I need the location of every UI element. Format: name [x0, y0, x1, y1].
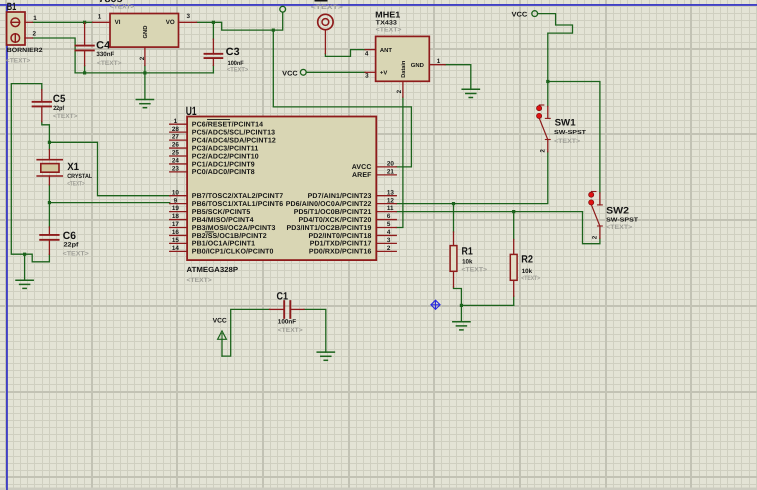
- label SW1: [555, 118, 577, 129]
- label MHE1: [375, 9, 400, 19]
- svg-text:U1: U1: [186, 104, 197, 118]
- pin number 1 B1: [33, 15, 37, 22]
- svg-text:<TEXT>: <TEXT>: [97, 60, 122, 67]
- svg-text:SW1: SW1: [555, 118, 577, 129]
- svg-text:PD1/TXD/PCINT17: PD1/TXD/PCINT17: [310, 240, 372, 248]
- svg-text:330nF: 330nF: [96, 51, 114, 58]
- value C3 100nF: [228, 60, 244, 67]
- junction node PD6/R1: [452, 202, 455, 205]
- power terminal VCC MHE1: [282, 69, 306, 77]
- pin number 3 V1: [187, 13, 191, 20]
- pin number 2 SW2 rotated: [592, 235, 599, 239]
- microcontroller U1 pin stubs: [170, 124, 397, 251]
- junction node VO/C3: [212, 21, 215, 24]
- svg-text:4: 4: [365, 50, 369, 57]
- pin number 2 SW1 rotated: [540, 149, 547, 153]
- svg-text:PB2/SS/OC1B/PCINT2: PB2/SS/OC1B/PCINT2: [192, 232, 267, 240]
- svg-text:<TEXT>: <TEXT>: [554, 138, 580, 145]
- module MHE1 pins: [365, 50, 445, 98]
- svg-text:25: 25: [172, 150, 180, 157]
- svg-text:C4: C4: [96, 40, 110, 52]
- svg-text:<TEXT>: <TEXT>: [278, 327, 303, 334]
- svg-text:5: 5: [387, 221, 391, 228]
- svg-text:ATMEGA328P: ATMEGA328P: [187, 265, 239, 274]
- text placeholder MHE1: [376, 27, 402, 34]
- wire ground rail under R1 R2: [461, 304, 513, 306]
- text placeholder U1: [187, 277, 213, 284]
- label C4: [96, 40, 110, 52]
- wire crystal top lead join: [48, 142, 50, 149]
- svg-text:3: 3: [387, 237, 391, 244]
- switch SW2: [589, 192, 603, 239]
- wire R2 top drop: [513, 212, 515, 240]
- label clipped above antenna: [315, 0, 328, 2]
- microcontroller U1 body: [187, 117, 376, 261]
- wire VO net to AVCC pin 20: [273, 30, 411, 167]
- svg-text:2: 2: [592, 235, 599, 239]
- capacitor C3: [205, 39, 223, 65]
- text placeholder C1: [278, 327, 303, 334]
- svg-text:<TEXT>: <TEXT>: [376, 27, 402, 34]
- text placeholder R2: [521, 275, 540, 282]
- value CRYSTAL: [67, 173, 92, 180]
- text placeholder C5: [53, 113, 78, 120]
- junction node C4/rail: [83, 71, 86, 74]
- svg-text:1: 1: [33, 15, 37, 22]
- terminal block B1: [7, 12, 33, 45]
- wire MHE1 GND pin to ground: [445, 65, 471, 90]
- svg-text:BORNIER2: BORNIER2: [7, 47, 43, 54]
- U1 left pin names and numbers: [172, 118, 283, 256]
- junction node VO/AVCC branch: [272, 29, 275, 32]
- module MHE1 body: [376, 36, 430, 81]
- pin name VO: [166, 19, 175, 26]
- text placeholder antenna: [311, 4, 344, 11]
- svg-text:+V: +V: [380, 70, 387, 77]
- regulator V1 pins: [93, 22, 197, 65]
- value BORNIER2: [7, 47, 43, 54]
- svg-text:<TEXT>: <TEXT>: [311, 4, 344, 11]
- svg-text:SW-SPST: SW-SPST: [554, 129, 587, 136]
- junction node rail/ground: [460, 304, 463, 307]
- svg-text:4: 4: [387, 229, 391, 236]
- svg-text:<TEXT>: <TEXT>: [67, 181, 85, 188]
- pin number 3 MHE1: [365, 73, 369, 80]
- svg-text:<TEXT>: <TEXT>: [606, 224, 632, 231]
- wire U1 PD5 pin11 to R2 and SW2 bottom: [396, 211, 582, 213]
- wire C1 right to ground: [304, 309, 326, 352]
- svg-text:ANT: ANT: [380, 47, 393, 54]
- svg-text:17: 17: [172, 221, 180, 228]
- value C4 330nF: [96, 51, 114, 58]
- capacitor C1: [270, 301, 305, 318]
- label C6: [63, 230, 76, 242]
- svg-text:10k: 10k: [462, 259, 473, 266]
- wire XTAL1 node down to C6: [48, 203, 50, 227]
- svg-text:11: 11: [387, 205, 394, 212]
- junction node XTAL2: [48, 141, 51, 144]
- svg-text:13: 13: [387, 189, 395, 196]
- power terminal VCC top (regulator output): [280, 6, 286, 12]
- value C6 22pf: [64, 242, 80, 249]
- capacitor C5: [33, 90, 51, 122]
- ground crystal caps: [16, 280, 33, 288]
- value C5 22pf: [53, 105, 65, 112]
- svg-text:SW2: SW2: [606, 206, 629, 217]
- label U1: [186, 104, 197, 118]
- svg-text:16: 16: [172, 229, 180, 236]
- wire B1 pin2 down to ground rail: [33, 38, 76, 73]
- text placeholder V1: [110, 3, 135, 10]
- svg-text:SW-SPST: SW-SPST: [606, 216, 639, 223]
- wire R1 top drop: [453, 204, 455, 232]
- sheet border blue horizontal: [0, 4, 757, 6]
- svg-text:VO: VO: [166, 19, 175, 26]
- wire C3 top tap: [212, 22, 214, 39]
- svg-text:10k: 10k: [522, 268, 533, 275]
- svg-text:19: 19: [172, 205, 180, 212]
- svg-text:14: 14: [172, 245, 180, 252]
- junction node V1GND/rail: [143, 71, 146, 74]
- power terminal VCC right: [512, 11, 538, 19]
- label C3: [226, 46, 240, 58]
- pin number 1 V1: [98, 14, 102, 21]
- wire ground rail under regulator: [75, 72, 213, 74]
- value R1 10k: [462, 259, 473, 266]
- label V1 clipped 7805: [99, 0, 123, 4]
- wire C3 bottom to rail: [212, 65, 214, 73]
- svg-text:AREF: AREF: [352, 172, 372, 179]
- svg-text:R1: R1: [462, 245, 473, 257]
- resistor R2: [510, 240, 517, 297]
- capacitor C6: [40, 227, 58, 254]
- svg-text:2: 2: [139, 56, 146, 60]
- value SW-SPST SW1: [554, 129, 587, 136]
- capacitor C4: [75, 23, 93, 66]
- svg-text:27: 27: [172, 134, 180, 141]
- ground V1: [136, 100, 153, 108]
- text placeholder C3: [227, 66, 249, 73]
- svg-text:24: 24: [172, 158, 180, 165]
- svg-text:PD2/INT0/PCINT18: PD2/INT0/PCINT18: [308, 232, 371, 240]
- svg-text:22pf: 22pf: [64, 242, 80, 249]
- value SW-SPST SW2: [606, 216, 639, 223]
- svg-text:Datain: Datain: [400, 60, 407, 78]
- svg-text:6: 6: [387, 213, 391, 220]
- svg-text:VCC: VCC: [282, 70, 298, 77]
- pin name GND MHE1: [411, 62, 424, 69]
- text placeholder SW1: [554, 138, 580, 145]
- svg-text:100nF: 100nF: [278, 318, 297, 325]
- svg-text:2: 2: [33, 31, 37, 38]
- value ATMEGA328P: [187, 265, 239, 274]
- svg-text:PD0/RXD/PCINT16: PD0/RXD/PCINT16: [309, 248, 372, 256]
- svg-text:CRYSTAL: CRYSTAL: [67, 173, 92, 180]
- label C5: [53, 93, 66, 105]
- label B1: [7, 1, 17, 13]
- svg-text:3: 3: [365, 73, 369, 80]
- junction node XTAL1: [48, 201, 51, 204]
- svg-text:21: 21: [387, 168, 395, 175]
- pin name ANT: [380, 47, 393, 54]
- svg-text:PB4/MISO/PCINT4: PB4/MISO/PCINT4: [192, 216, 254, 224]
- svg-text:GND: GND: [411, 62, 424, 69]
- text placeholder X1: [67, 181, 85, 188]
- U1 right pin names and numbers: [286, 161, 395, 256]
- svg-text:B1: B1: [7, 1, 17, 13]
- svg-text:PC6/RESET/PCINT14: PC6/RESET/PCINT14: [192, 121, 263, 129]
- svg-text:PD5/T1/OC0B/PCINT21: PD5/T1/OC0B/PCINT21: [294, 208, 372, 216]
- svg-text:1: 1: [98, 14, 102, 21]
- svg-text:PD3/INT1/OC2B/PCINT19: PD3/INT1/OC2B/PCINT19: [287, 224, 372, 232]
- svg-text:PD7/AIN1/PCINT23: PD7/AIN1/PCINT23: [308, 192, 372, 200]
- pin number 2 B1: [33, 31, 37, 38]
- svg-text:VI: VI: [115, 19, 121, 26]
- wire crystal bottom to XTAL1 node: [48, 185, 50, 203]
- wire U1 PD6 pin12 to R1 and SW1 bottom: [396, 152, 548, 204]
- wire B1 pin1 to V1 VI (net VIN): [33, 21, 93, 23]
- junction node VIN/C4: [83, 21, 86, 24]
- svg-text:PB5/SCK/PCINT5: PB5/SCK/PCINT5: [192, 208, 251, 216]
- pin name +V: [380, 70, 387, 77]
- svg-text:<TEXT>: <TEXT>: [227, 66, 249, 73]
- svg-text:TX433: TX433: [376, 20, 398, 27]
- svg-text:3: 3: [187, 13, 191, 20]
- wire VCC terminal to MHE1 +V: [306, 71, 365, 73]
- svg-text:PC0/ADC0/PCINT8: PC0/ADC0/PCINT8: [192, 168, 255, 176]
- text placeholder B1: [6, 57, 31, 64]
- svg-text:20: 20: [387, 161, 395, 168]
- svg-text:<TEXT>: <TEXT>: [53, 113, 78, 120]
- svg-text:R2: R2: [521, 254, 533, 266]
- origin marker blue diamond: [431, 300, 440, 309]
- wire MHE1 Datain down to U1 PD3 pin 5: [396, 97, 403, 227]
- value R2 10k: [522, 268, 533, 275]
- svg-text:2: 2: [387, 245, 391, 252]
- label R2: [521, 254, 533, 266]
- junction node PD5/R2: [512, 210, 515, 213]
- svg-text:1: 1: [174, 118, 178, 125]
- wire C5 bottom jog to crystal top node: [42, 122, 50, 143]
- svg-text:C6: C6: [63, 230, 76, 242]
- wire ground drop on C6 return: [24, 254, 26, 280]
- svg-text:PB6/TOSC1/XTAL1/PCINT6: PB6/TOSC1/XTAL1/PCINT6: [192, 200, 283, 208]
- svg-text:22pf: 22pf: [53, 105, 65, 112]
- svg-text:AVCC: AVCC: [352, 164, 372, 171]
- label C1: [277, 291, 289, 303]
- junction node VCC/SW branch: [546, 80, 549, 83]
- svg-text:<TEXT>: <TEXT>: [521, 275, 540, 282]
- pin number 4 MHE1: [365, 50, 369, 57]
- svg-text:<TEXT>: <TEXT>: [63, 250, 89, 257]
- svg-text:PD4/T0/XCK/PCINT20: PD4/T0/XCK/PCINT20: [299, 216, 372, 224]
- svg-text:2: 2: [540, 149, 547, 153]
- svg-text:23: 23: [172, 166, 180, 173]
- svg-text:PC2/ADC2/PCINT10: PC2/ADC2/PCINT10: [192, 152, 259, 160]
- svg-text:PC1/ADC1/PCINT9: PC1/ADC1/PCINT9: [192, 160, 255, 168]
- wire R1 bottom to ground rail: [454, 287, 462, 305]
- wire V1 VO to VCC terminal (jog): [197, 12, 283, 30]
- svg-text:PD6/AIN0/OC0A/PCINT22: PD6/AIN0/OC0A/PCINT22: [286, 200, 372, 208]
- svg-text:PC5/ADC5/SCL/PCINT13: PC5/ADC5/SCL/PCINT13: [192, 128, 275, 136]
- svg-text:C5: C5: [53, 93, 66, 105]
- wire U1 XTAL2 pin10 to crystal top: [49, 142, 169, 195]
- pin number 2 MHE1 rotated: [396, 89, 403, 93]
- svg-text:MHE1: MHE1: [375, 9, 400, 19]
- crystal X1: [37, 150, 62, 185]
- svg-text:1: 1: [437, 58, 441, 65]
- pin number 2 V1 rotated: [139, 56, 146, 60]
- text placeholder R1: [462, 267, 488, 274]
- svg-text:PC3/ADC3/PCINT11: PC3/ADC3/PCINT11: [192, 144, 259, 152]
- ground MHE1: [462, 89, 479, 97]
- pin name GND rotated: [142, 26, 149, 39]
- svg-text:GND: GND: [142, 26, 149, 39]
- svg-text:PB7/TOSC2/XTAL2/PCINT7: PB7/TOSC2/XTAL2/PCINT7: [192, 192, 283, 200]
- svg-text:PB1/OC1A/PCINT1: PB1/OC1A/PCINT1: [192, 240, 255, 248]
- svg-text:C1: C1: [277, 291, 289, 303]
- svg-text:15: 15: [172, 237, 180, 244]
- pin name VI: [115, 19, 121, 26]
- pin name Datain rotated: [400, 60, 407, 78]
- svg-text:26: 26: [172, 142, 180, 149]
- wire R2 bottom: [513, 296, 515, 305]
- power arrow VCC at C1: [213, 318, 227, 356]
- value TX433: [376, 20, 398, 27]
- ground R1 R2 rail: [453, 322, 470, 330]
- svg-text:<TEXT>: <TEXT>: [462, 267, 488, 274]
- ground C1: [317, 352, 334, 360]
- label SW2: [606, 206, 629, 217]
- wire VCC to SW1 top (jog): [538, 14, 573, 107]
- svg-text:<TEXT>: <TEXT>: [187, 277, 213, 284]
- svg-text:C3: C3: [226, 46, 240, 58]
- svg-text:PB3/MOSI/OC2A/PCINT3: PB3/MOSI/OC2A/PCINT3: [192, 224, 276, 232]
- wire V1 GND pin to rail and ground: [144, 66, 146, 100]
- wire VCC arrow to C1 left: [222, 309, 270, 356]
- svg-text:<TEXT>: <TEXT>: [110, 3, 135, 10]
- svg-text:12: 12: [387, 197, 395, 204]
- label X1: [67, 161, 79, 173]
- svg-text:28: 28: [172, 126, 180, 133]
- wire antenna to MHE1 ANT (jog): [325, 50, 365, 57]
- wire C5 top to left ground rail and C6 return: [11, 84, 49, 262]
- wire branch to SW2 top: [548, 82, 600, 193]
- svg-text:18: 18: [172, 213, 180, 220]
- wire ground drop below rail: [460, 305, 462, 321]
- svg-text:2: 2: [396, 89, 403, 93]
- value C1 100nF: [278, 318, 297, 325]
- wire U1 XTAL1 pin9 to crystal bottom: [49, 202, 169, 204]
- svg-text:X1: X1: [67, 161, 79, 173]
- text placeholder SW2: [606, 224, 632, 231]
- junction node C6 ground: [23, 253, 26, 256]
- pin number 1 MHE1: [437, 58, 441, 65]
- text placeholder C4: [97, 60, 122, 67]
- resistor R1: [450, 232, 457, 287]
- svg-text:VCC: VCC: [512, 11, 528, 18]
- svg-text:VCC: VCC: [213, 318, 227, 325]
- label R1: [462, 245, 473, 257]
- bottom window edge: [0, 488, 757, 490]
- svg-text:<TEXT>: <TEXT>: [6, 57, 31, 64]
- antenna symbol: [318, 14, 333, 53]
- wire SW2 bottom return: [583, 212, 600, 244]
- svg-text:PC4/ADC4/SDA/PCINT12: PC4/ADC4/SDA/PCINT12: [192, 136, 276, 144]
- sheet border blue vertical: [6, 4, 8, 490]
- svg-text:9: 9: [174, 197, 178, 204]
- svg-text:PB0/ICP1/CLKO/PCINT0: PB0/ICP1/CLKO/PCINT0: [192, 248, 274, 256]
- switch SW1: [537, 105, 551, 152]
- regulator V1 body: [110, 14, 179, 48]
- wire C4 bottom to rail: [84, 66, 86, 73]
- text placeholder C6: [63, 250, 89, 257]
- svg-text:10: 10: [172, 189, 180, 196]
